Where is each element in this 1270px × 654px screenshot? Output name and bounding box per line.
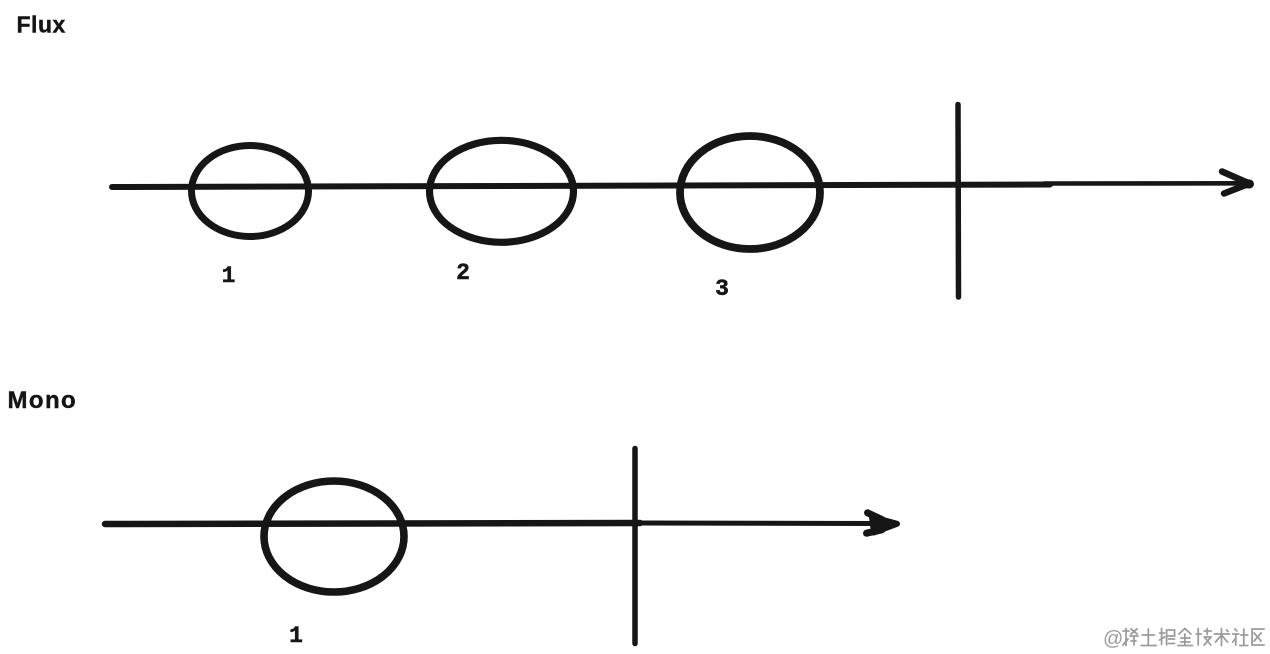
glyph qu <box>1252 629 1264 645</box>
glyph shu <box>1215 629 1230 646</box>
svg-text:@: @ <box>1103 628 1123 650</box>
glyph jin <box>1178 629 1193 646</box>
wire: Mono timeline arrow segment <box>640 521 873 527</box>
glyph she <box>1233 629 1248 646</box>
arrowhead: Mono timeline <box>867 513 898 533</box>
arrowhead: Flux timeline <box>1222 172 1250 194</box>
marble 3 (Flux) <box>680 136 820 249</box>
terminal bar (Flux) <box>955 105 961 298</box>
glyph xi <box>1123 629 1138 646</box>
glyph jue <box>1160 629 1175 646</box>
glyph tu <box>1141 629 1156 646</box>
svg-text:3: 3 <box>715 276 729 302</box>
glyph ji <box>1196 629 1211 646</box>
svg-text:1: 1 <box>289 623 303 649</box>
wire: Flux timeline arrow segment <box>1044 181 1246 186</box>
svg-text:Flux: Flux <box>17 12 66 38</box>
wire: Mono timeline main segment <box>105 523 640 524</box>
terminal bar (Mono) <box>632 449 638 644</box>
marble 1 (Flux) <box>192 146 309 237</box>
marble 1 (Mono) <box>264 481 404 592</box>
watermark CJK glyph strokes (drawn, no CJK font available) <box>1123 629 1264 646</box>
svg-text:1: 1 <box>222 263 236 289</box>
wire: Flux timeline main segment <box>112 185 1050 188</box>
svg-text:Mono: Mono <box>8 387 78 414</box>
svg-text:2: 2 <box>456 260 470 286</box>
marble 2 (Flux) <box>430 140 574 242</box>
